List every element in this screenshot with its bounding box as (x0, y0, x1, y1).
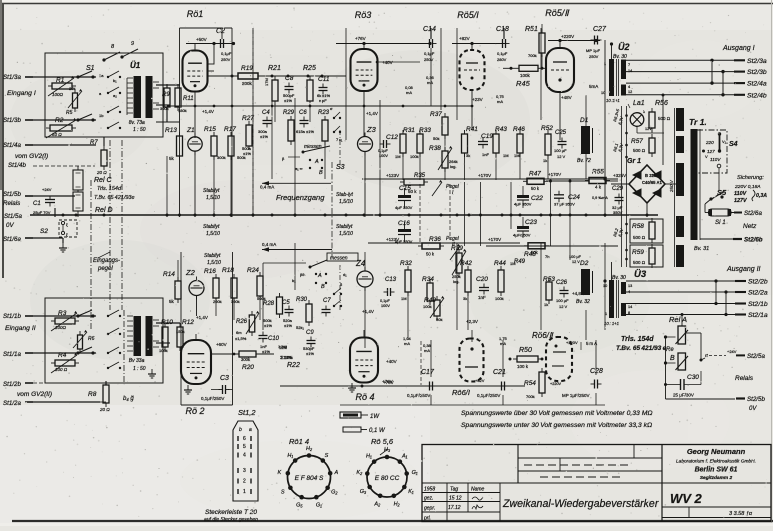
svg-text:100V: 100V (381, 304, 390, 308)
svg-text:100k: 100k (423, 304, 432, 309)
svg-text:+1,4V: +1,4V (196, 315, 208, 320)
svg-text:6: 6 (243, 436, 246, 442)
svg-text:C4: C4 (262, 110, 270, 116)
svg-text:3 3.58 ƒα: 3 3.58 ƒα (729, 511, 753, 517)
svg-text:17M: 17M (264, 78, 269, 86)
svg-text:700k: 700k (528, 53, 537, 58)
svg-text:0,4 mA: 0,4 mA (262, 242, 276, 247)
svg-text:12: 12 (628, 90, 632, 94)
svg-text:Netz: Netz (743, 223, 757, 230)
svg-text:Bv. 32: Bv. 32 (576, 299, 590, 305)
svg-text:C12: C12 (386, 134, 398, 141)
svg-text:C23: C23 (525, 219, 537, 226)
svg-text:R4: R4 (58, 352, 67, 359)
svg-text:250V: 250V (589, 54, 599, 59)
svg-text:H₂: H₂ (306, 446, 313, 452)
svg-text:R41: R41 (466, 126, 478, 133)
svg-text:La1: La1 (633, 100, 645, 107)
svg-text:12 V: 12 V (559, 304, 568, 309)
svg-text:St1,2: St1,2 (238, 408, 256, 417)
svg-text:Relais: Relais (3, 200, 20, 207)
svg-text:25μF 70V: 25μF 70V (33, 210, 51, 215)
svg-text:Ü2: Ü2 (618, 42, 630, 52)
svg-text:H₁: H₁ (366, 454, 372, 460)
svg-text:prl.: prl. (423, 516, 431, 522)
svg-text:Bv. 30: Bv. 30 (613, 54, 627, 60)
svg-text:B: B (319, 170, 323, 176)
svg-text:+220V: +220V (566, 340, 578, 345)
svg-text:R3: R3 (58, 310, 67, 317)
svg-text:0,1 W: 0,1 W (369, 428, 386, 434)
svg-text:12V: 12V (645, 127, 652, 131)
svg-text:1M: 1M (503, 153, 509, 158)
svg-text:±1%: ±1% (264, 323, 272, 328)
svg-text:1k: 1k (543, 158, 547, 163)
svg-text:4μF: 4μF (395, 205, 403, 210)
svg-text:St1/4b: St1/4b (8, 162, 26, 169)
svg-text:0,1μF: 0,1μF (221, 51, 232, 56)
svg-text:250V: 250V (424, 57, 434, 62)
svg-text:λ: λ (643, 109, 645, 114)
svg-text:Spannungswerte unter 30 Vol: Spannungswerte unter 30 Volt gemessen mi… (461, 422, 652, 429)
svg-text:100 Ω: 100 Ω (55, 367, 68, 372)
svg-text:1M: 1M (395, 154, 401, 159)
svg-text:220: 220 (705, 140, 714, 145)
svg-text:5k: 5k (169, 299, 175, 304)
svg-text:+40V: +40V (386, 359, 397, 364)
svg-text:20k: 20k (69, 86, 75, 91)
svg-text:+40V: +40V (382, 60, 393, 65)
svg-text:300k: 300k (241, 357, 251, 362)
svg-text:R55: R55 (592, 169, 604, 176)
svg-text:K: K (277, 470, 281, 476)
svg-text:8v. 73a: 8v. 73a (126, 120, 145, 126)
svg-text:messen: messen (330, 256, 348, 262)
svg-text:R25: R25 (303, 65, 316, 72)
svg-text:R14: R14 (163, 271, 175, 278)
svg-text:A₁: A₁ (401, 454, 408, 460)
svg-text:St1/3a: St1/3a (3, 74, 21, 81)
svg-text:R57: R57 (631, 138, 643, 145)
svg-text:R54: R54 (524, 380, 536, 387)
svg-text:C13: C13 (385, 277, 397, 283)
svg-text:50k: 50k (531, 250, 539, 255)
svg-text:+82V: +82V (459, 36, 470, 41)
svg-text:Sicherung:: Sicherung: (737, 175, 764, 181)
svg-text:R32: R32 (400, 260, 412, 267)
svg-text:1M: 1M (401, 296, 407, 301)
svg-text:250V: 250V (221, 57, 231, 62)
svg-text:0,4 mA: 0,4 mA (260, 185, 274, 190)
svg-text:50 Ω: 50 Ω (52, 132, 62, 137)
svg-text:500 Ω: 500 Ω (633, 148, 646, 153)
svg-text:R24: R24 (247, 267, 259, 274)
svg-text:R26: R26 (236, 319, 248, 325)
svg-text:St1/1b: St1/1b (3, 313, 21, 320)
svg-text:200k: 200k (242, 81, 253, 86)
svg-text:R38: R38 (429, 145, 441, 152)
svg-text:Bv. 30: Bv. 30 (612, 275, 626, 281)
svg-text:Re: Re (666, 347, 674, 353)
svg-text:Trls. 154d: Trls. 154d (97, 186, 122, 192)
svg-text:D2: D2 (580, 260, 589, 267)
svg-text:100Ω: 100Ω (52, 92, 64, 97)
svg-text:St1/1a: St1/1a (3, 351, 21, 358)
svg-text:0,3A: 0,3A (756, 193, 767, 199)
svg-text:+220V: +220V (550, 382, 562, 386)
svg-text:1b: 1b (99, 113, 104, 118)
svg-text:4: 4 (628, 85, 630, 89)
svg-text:100V: 100V (379, 154, 388, 158)
svg-text:+1,4V: +1,4V (366, 111, 378, 116)
svg-text:+170V: +170V (548, 172, 561, 177)
svg-text:C5: C5 (282, 300, 290, 306)
svg-text:0,1μF/250V: 0,1μF/250V (201, 396, 224, 401)
svg-text:±1%: ±1% (243, 151, 251, 156)
svg-text:Tag: Tag (450, 487, 458, 493)
svg-text:Bv 33a: Bv 33a (126, 358, 145, 364)
svg-text:T.Bv. 65 421/93e: T.Bv. 65 421/93e (94, 195, 135, 201)
svg-text:180k: 180k (178, 108, 187, 113)
svg-text:Rel A: Rel A (669, 315, 687, 324)
svg-text:St1/2a: St1/2a (3, 400, 21, 407)
svg-text:100 k: 100 k (517, 364, 529, 369)
svg-text:St2/5a: St2/5a (747, 353, 765, 360)
svg-text:+60V: +60V (216, 342, 227, 347)
svg-text:C20: C20 (476, 276, 488, 283)
svg-text:350V: 350V (403, 205, 413, 210)
svg-text:R49: R49 (514, 259, 526, 265)
svg-text:B: B (670, 355, 675, 362)
svg-text:±1%: ±1% (306, 351, 314, 356)
svg-text:Eingangs-: Eingangs- (93, 258, 120, 264)
svg-text:100 μF: 100 μF (569, 255, 582, 259)
svg-text:G₃: G₃ (360, 489, 367, 495)
svg-text:messen: messen (304, 144, 322, 150)
svg-text:C27: C27 (593, 26, 607, 33)
svg-text:3k: 3k (463, 296, 467, 301)
svg-text:b: b (239, 427, 242, 433)
svg-text:R17: R17 (224, 126, 236, 133)
svg-text:10: 10 (601, 91, 605, 95)
svg-text:1 : 50: 1 : 50 (133, 366, 146, 372)
svg-text:A₂: A₂ (373, 501, 381, 507)
svg-text:100k: 100k (520, 73, 531, 78)
svg-text:b₄ ğ: b₄ ğ (123, 396, 134, 402)
svg-text:Spannungswerte über 30 Vol: Spannungswerte über 30 Volt gemessen mit… (461, 410, 653, 417)
svg-text:Z2: Z2 (185, 268, 196, 277)
svg-text:Frequenzgang: Frequenzgang (276, 193, 325, 202)
svg-text:Zweikanal-Wiedergabeverstärker: Zweikanal-Wiedergabeverstärker (502, 498, 659, 510)
svg-text:R7: R7 (90, 140, 98, 146)
svg-text:Eingang II: Eingang II (5, 325, 36, 332)
svg-text:auf die Stecker gesehen: auf die Stecker gesehen (204, 517, 258, 523)
svg-text:14: 14 (628, 69, 632, 73)
svg-text:100 μF: 100 μF (556, 298, 569, 303)
svg-text:6m: 6m (236, 330, 242, 335)
svg-text:Eingang I: Eingang I (7, 90, 36, 97)
svg-text:R15: R15 (204, 126, 216, 133)
svg-text:200k: 200k (213, 299, 222, 304)
svg-text:C22: C22 (531, 195, 543, 202)
svg-text:G₂: G₂ (331, 490, 338, 496)
svg-text:R8: R8 (88, 391, 97, 398)
svg-text:1,5/10: 1,5/10 (339, 199, 353, 205)
svg-text:+76V: +76V (355, 36, 366, 41)
svg-text:50 k: 50 k (426, 252, 435, 257)
svg-text:Georg Neumann: Georg Neumann (687, 447, 746, 456)
svg-text:Bv. 72: Bv. 72 (577, 158, 591, 164)
svg-text:Ausgang I: Ausgang I (722, 45, 755, 52)
svg-text:5mA: 5mA (589, 84, 598, 89)
svg-text:50k: 50k (436, 317, 442, 322)
svg-text:Stabilyt: Stabilyt (203, 188, 220, 194)
svg-text:Rö5/Ⅱ: Rö5/Ⅱ (545, 8, 570, 18)
svg-text:St2/6b: St2/6b (744, 237, 763, 244)
svg-text:R16: R16 (204, 268, 216, 275)
svg-text:MP 1μF/250V: MP 1μF/250V (562, 393, 590, 398)
svg-text:a₂: a₂ (113, 93, 117, 98)
svg-text:R5: R5 (66, 110, 73, 116)
svg-text:mA: mA (497, 99, 503, 104)
svg-text:C25: C25 (555, 130, 567, 136)
svg-text:E F 804 S: E F 804 S (295, 475, 324, 482)
svg-text:50 k: 50 k (531, 186, 540, 191)
svg-text:n pF: n pF (319, 98, 327, 103)
svg-text:St2/4a: St2/4a (747, 81, 767, 88)
svg-text:+220V: +220V (561, 34, 574, 39)
svg-text:+82V: +82V (475, 378, 485, 383)
svg-text:100 μF: 100 μF (554, 148, 567, 153)
svg-text:R6: R6 (88, 336, 95, 342)
svg-text:1nF: 1nF (482, 152, 489, 157)
svg-text:E 80 CC: E 80 CC (375, 475, 400, 482)
svg-text:500 Ω: 500 Ω (633, 235, 646, 240)
svg-text:Rö6/I: Rö6/I (452, 388, 470, 397)
svg-text:T.Bv. 65 421/93 e: T.Bv. 65 421/93 e (616, 345, 667, 352)
svg-text:R50: R50 (519, 347, 532, 354)
svg-text:R12: R12 (182, 319, 194, 326)
svg-text:13: 13 (628, 284, 632, 288)
svg-text:R37: R37 (430, 111, 442, 118)
svg-text:C3: C3 (220, 375, 229, 382)
svg-text:15 12: 15 12 (449, 496, 462, 502)
svg-text:C7: C7 (323, 298, 331, 304)
svg-text:Z3: Z3 (366, 125, 377, 134)
svg-text:R43: R43 (495, 126, 507, 133)
svg-text:H₂: H₂ (394, 501, 401, 507)
svg-text:100k: 100k (495, 296, 504, 301)
svg-text:Rö1: Rö1 (187, 9, 204, 19)
svg-text:350V: 350V (403, 239, 413, 244)
svg-text:St1/4a: St1/4a (3, 142, 21, 149)
svg-text:R27: R27 (242, 115, 254, 122)
svg-text:St1/2b: St1/2b (3, 381, 21, 388)
svg-text:R22: R22 (287, 362, 300, 369)
svg-text:+24V: +24V (42, 187, 52, 192)
svg-text:1k: 1k (544, 302, 548, 307)
svg-text:+325V: +325V (613, 173, 626, 178)
svg-text:12 V: 12 V (557, 154, 566, 159)
svg-text:+23V: +23V (472, 97, 483, 102)
svg-text:C11: C11 (318, 76, 330, 83)
svg-text:+123V: +123V (386, 173, 399, 178)
svg-text:±1,5%: ±1,5% (235, 336, 247, 341)
svg-text:Z1: Z1 (186, 127, 195, 134)
svg-text:100k: 100k (159, 348, 168, 353)
svg-text:R28: R28 (263, 301, 275, 307)
svg-text:7h: 7h (545, 254, 549, 259)
svg-text:Σ 10%: Σ 10% (280, 355, 292, 360)
svg-text:1,5/10: 1,5/10 (207, 260, 221, 266)
svg-text:9: 9 (131, 41, 134, 47)
svg-text:a: a (249, 427, 252, 433)
svg-text:vom GV2(I): vom GV2(I) (15, 153, 48, 160)
svg-text:G₁: G₁ (316, 502, 322, 508)
svg-text:Rö1 4: Rö1 4 (289, 437, 309, 446)
svg-text:MP 1μF: MP 1μF (586, 48, 601, 53)
svg-text:500 Ω: 500 Ω (658, 116, 671, 121)
svg-text:R34: R34 (422, 276, 434, 283)
svg-text:100Ω: 100Ω (55, 325, 67, 330)
svg-text:10 : 1+1: 10 : 1+1 (604, 321, 619, 326)
svg-text:Rö6/Ⅱ: Rö6/Ⅱ (532, 331, 554, 340)
svg-text:Steckerleiste T 20: Steckerleiste T 20 (205, 509, 257, 516)
svg-text:R30: R30 (296, 297, 308, 303)
svg-text:+50V: +50V (196, 37, 207, 42)
svg-text:1,5/10: 1,5/10 (206, 195, 220, 201)
svg-text:R21: R21 (268, 65, 281, 72)
svg-text:4 k: 4 k (595, 185, 602, 190)
svg-text:0,1μF/250V: 0,1μF/250V (477, 393, 500, 398)
svg-text:H₃: H₃ (384, 447, 391, 453)
svg-text:0,1μF: 0,1μF (497, 51, 508, 56)
svg-text:log.: log. (450, 164, 456, 169)
svg-text:St1/5a: St1/5a (4, 213, 22, 220)
svg-text:R44: R44 (494, 260, 506, 267)
svg-text:C9: C9 (306, 330, 314, 336)
svg-text:5 m A: 5 m A (586, 341, 597, 346)
svg-text:S: S (281, 490, 285, 496)
svg-text:gez.: gez. (424, 496, 433, 502)
svg-text:10 :1+1: 10 :1+1 (606, 98, 620, 103)
svg-text:20 Ω: 20 Ω (99, 407, 110, 412)
svg-text:St2/6a: St2/6a (744, 210, 762, 217)
svg-text:Rö5/I: Rö5/I (457, 10, 479, 20)
svg-text:2: 2 (243, 479, 246, 485)
svg-text:1M: 1M (510, 261, 516, 266)
svg-text:3: 3 (243, 468, 246, 474)
svg-text:B: B (321, 284, 325, 290)
svg-text:Rö 5,6: Rö 5,6 (371, 437, 394, 446)
svg-text:B 310: B 310 (645, 173, 657, 178)
svg-text:C14: C14 (423, 26, 436, 33)
svg-text:17.12: 17.12 (448, 505, 461, 511)
svg-text:WV 2: WV 2 (670, 491, 703, 506)
svg-text:0V: 0V (749, 406, 757, 412)
svg-text:Tr 1.: Tr 1. (689, 117, 707, 127)
svg-text:R1: R1 (56, 77, 65, 84)
svg-text:1 2M: 1 2M (278, 344, 287, 349)
svg-text:R31: R31 (403, 127, 415, 134)
svg-text:+48V: +48V (561, 95, 572, 100)
svg-text:0,1μF: 0,1μF (380, 299, 390, 303)
svg-text:0,1μF: 0,1μF (424, 51, 435, 56)
svg-text:S1: S1 (86, 65, 95, 72)
svg-text:V₁: V₁ (722, 139, 727, 144)
svg-text:β9: β9 (300, 272, 305, 277)
svg-text:250 V: 250 V (669, 179, 674, 193)
svg-text:Si 1: Si 1 (715, 219, 726, 226)
svg-text:1W: 1W (370, 414, 380, 420)
svg-text:C29: C29 (612, 186, 624, 192)
svg-text:1 : 50: 1 : 50 (133, 127, 146, 133)
svg-text:R47: R47 (529, 171, 541, 178)
svg-text:K₂: K₂ (356, 470, 363, 476)
svg-text:Ausgang II: Ausgang II (726, 266, 761, 273)
svg-text:St2/5b: St2/5b (747, 396, 765, 403)
svg-text:+170V: +170V (488, 237, 501, 242)
svg-text:+170V: +170V (478, 173, 491, 178)
svg-text:0,1μF: 0,1μF (378, 149, 388, 153)
svg-text:R13: R13 (165, 127, 177, 134)
svg-text:1M: 1M (514, 153, 520, 158)
svg-text:R52: R52 (541, 125, 553, 132)
svg-text:220V 0,18A: 220V 0,18A (734, 184, 761, 190)
svg-text:G₅: G₅ (296, 502, 303, 508)
svg-text:C18: C18 (496, 26, 509, 33)
svg-text:St2/2b: St2/2b (748, 279, 768, 286)
svg-text:C15: C15 (399, 185, 411, 192)
svg-text:Berlin SW 61: Berlin SW 61 (695, 467, 738, 474)
svg-text:R2: R2 (55, 117, 64, 124)
svg-text:1,5/10: 1,5/10 (339, 231, 353, 237)
svg-text:3k: 3k (466, 153, 470, 158)
svg-text:0V: 0V (6, 222, 14, 229)
svg-text:R11: R11 (183, 96, 194, 102)
svg-text:R46: R46 (513, 126, 525, 133)
svg-text:52k₁: 52k₁ (296, 325, 304, 330)
svg-text:25 μF/30V: 25 μF/30V (673, 393, 694, 398)
svg-text:S: S (325, 453, 329, 459)
svg-text:7: 7 (628, 63, 630, 67)
svg-text:1,5/10: 1,5/10 (206, 231, 220, 237)
svg-text:C6: C6 (299, 110, 307, 116)
svg-text:Gr 1: Gr 1 (627, 158, 641, 165)
svg-text:R56: R56 (655, 100, 668, 107)
svg-text:C17: C17 (421, 369, 435, 376)
svg-text:Stabilyt: Stabilyt (203, 224, 220, 230)
svg-text:1nF: 1nF (478, 295, 486, 300)
svg-text:1: 1 (604, 62, 606, 66)
svg-text:S4: S4 (729, 141, 738, 148)
svg-text:20 Ω: 20 Ω (96, 170, 107, 175)
svg-text:Name: Name (471, 487, 485, 493)
svg-text:150k: 150k (176, 329, 185, 334)
svg-text:Segitzdamm 2: Segitzdamm 2 (700, 475, 733, 481)
svg-text:A: A (334, 470, 339, 476)
svg-text:St2/1b: St2/1b (748, 301, 768, 308)
svg-text:4μF/350V: 4μF/350V (513, 233, 531, 238)
svg-text:700k: 700k (526, 394, 535, 399)
svg-text:R51: R51 (525, 26, 538, 33)
svg-text:±1%: ±1% (260, 134, 268, 139)
svg-text:110V: 110V (734, 191, 747, 197)
svg-text:R19: R19 (241, 65, 253, 72)
svg-text:+76V: +76V (382, 379, 393, 384)
svg-text:1: 1 (243, 489, 246, 495)
svg-text:Stab‑lyt: Stab‑lyt (336, 192, 354, 198)
